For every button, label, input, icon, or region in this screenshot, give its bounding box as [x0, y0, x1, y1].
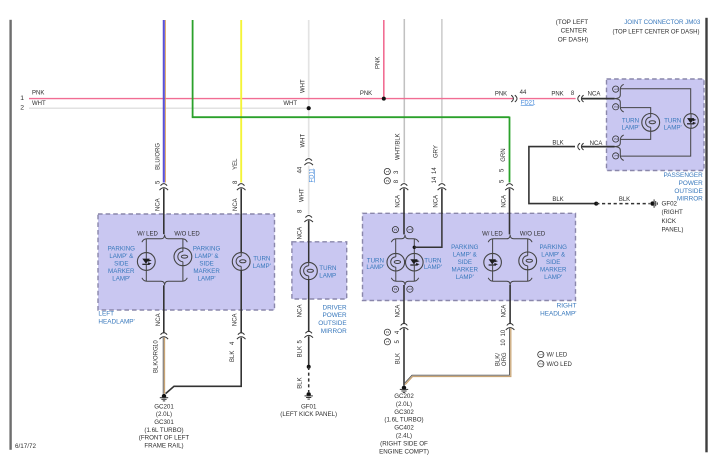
svg-text:LAMP' &: LAMP' &	[109, 253, 134, 260]
svg-text:TURN: TURN	[253, 256, 270, 263]
svg-text:PNK: PNK	[495, 91, 507, 97]
svg-text:CENTER: CENTER	[561, 28, 588, 35]
svg-text:FRAME RAIL): FRAME RAIL)	[144, 442, 183, 449]
svg-text:BLK/: BLK/	[496, 353, 502, 366]
svg-text:(2.0L): (2.0L)	[396, 401, 412, 408]
svg-text:NCA: NCA	[501, 195, 507, 208]
svg-text:POWER: POWER	[679, 180, 704, 187]
svg-text:BLK: BLK	[298, 377, 304, 388]
svg-text:PNK: PNK	[360, 91, 372, 97]
svg-text:HEADLAMP': HEADLAMP'	[98, 318, 134, 325]
svg-text:WHT: WHT	[283, 101, 297, 107]
svg-text:WHT/BLK: WHT/BLK	[396, 133, 402, 160]
svg-text:(1.6L TURBO): (1.6L TURBO)	[384, 417, 423, 424]
svg-text:2: 2	[20, 105, 24, 112]
svg-text:NCA: NCA	[396, 305, 402, 318]
svg-text:WHT: WHT	[300, 188, 306, 202]
svg-text:(1.6L TURBO): (1.6L TURBO)	[144, 427, 183, 434]
svg-text:MARKER: MARKER	[108, 268, 135, 275]
svg-text:LAMP': LAMP'	[424, 264, 442, 271]
svg-text:NCA: NCA	[233, 198, 239, 211]
svg-text:JOINT CONNECTOR JM03: JOINT CONNECTOR JM03	[624, 19, 701, 26]
svg-text:NCA: NCA	[588, 91, 601, 97]
svg-text:BLK: BLK	[552, 141, 563, 147]
svg-text:NCA: NCA	[232, 313, 238, 326]
svg-text:W/O LED: W/O LED	[547, 362, 573, 368]
svg-text:BLU/ORG: BLU/ORG	[155, 143, 161, 170]
svg-text:MARKER: MARKER	[452, 267, 479, 274]
svg-text:LAMP': LAMP'	[198, 275, 216, 282]
svg-text:BLK: BLK	[230, 351, 236, 362]
svg-text:ORG: ORG	[502, 352, 508, 366]
svg-text:1: 1	[20, 95, 24, 102]
svg-text:GC202: GC202	[394, 393, 414, 400]
svg-text:GF01: GF01	[301, 403, 317, 410]
svg-text:PASSENGER: PASSENGER	[663, 172, 703, 179]
svg-text:LAMP': LAMP'	[621, 124, 639, 131]
svg-text:NCA: NCA	[396, 195, 402, 208]
svg-text:NCA: NCA	[298, 305, 304, 318]
svg-text:LAMP' &: LAMP' &	[195, 253, 220, 260]
svg-text:LAMP': LAMP'	[366, 264, 384, 271]
svg-text:W/O LED: W/O LED	[520, 232, 546, 238]
svg-text:44: 44	[297, 166, 303, 173]
svg-text:HEADLAMP': HEADLAMP'	[540, 310, 576, 317]
svg-text:SIDE: SIDE	[458, 259, 472, 266]
svg-text:LAMP': LAMP'	[544, 274, 562, 281]
svg-text:LAMP': LAMP'	[112, 275, 130, 282]
svg-text:RIGHT: RIGHT	[557, 303, 577, 310]
svg-text:(TOP LEFT CENTER OF DASH): (TOP LEFT CENTER OF DASH)	[612, 30, 699, 36]
svg-text:10: 10	[501, 329, 507, 336]
svg-text:14: 14	[432, 167, 438, 174]
svg-text:PANEL): PANEL)	[662, 226, 684, 233]
svg-text:(RIGHT: (RIGHT	[662, 209, 684, 216]
svg-text:GC201: GC201	[154, 403, 174, 410]
svg-text:PARKING: PARKING	[540, 244, 568, 251]
svg-text:14: 14	[432, 176, 438, 183]
svg-text:GC301: GC301	[154, 419, 174, 426]
svg-text:PNK: PNK	[551, 91, 563, 97]
svg-text:NCA: NCA	[590, 141, 603, 147]
svg-text:GRY: GRY	[433, 145, 439, 158]
svg-text:WHT: WHT	[32, 101, 46, 107]
svg-text:(FRONT OF LEFT: (FRONT OF LEFT	[139, 435, 190, 442]
svg-text:PARKING: PARKING	[451, 244, 479, 251]
svg-text:NCA: NCA	[433, 195, 439, 208]
svg-text:GC402: GC402	[394, 425, 414, 432]
svg-text:(RIGHT SIDE OF: (RIGHT SIDE OF	[380, 440, 428, 447]
svg-text:SIDE: SIDE	[199, 260, 213, 267]
svg-text:PARKING: PARKING	[108, 245, 136, 252]
svg-text:YEL: YEL	[233, 158, 239, 170]
svg-text:(2.4L): (2.4L)	[396, 433, 412, 440]
svg-text:W/O LED: W/O LED	[174, 231, 200, 237]
svg-text:LAMP' &: LAMP' &	[541, 252, 566, 259]
svg-text:PARKING: PARKING	[193, 245, 221, 252]
svg-text:MIRROR: MIRROR	[677, 196, 703, 203]
svg-text:SIDE: SIDE	[546, 259, 560, 266]
svg-text:SIDE: SIDE	[114, 260, 128, 267]
svg-text:NCA: NCA	[155, 198, 161, 211]
svg-text:LAMP': LAMP'	[253, 263, 271, 270]
svg-text:BLK: BLK	[552, 197, 563, 203]
svg-text:LAMP' &: LAMP' &	[453, 252, 478, 259]
svg-text:GC302: GC302	[394, 409, 414, 416]
svg-text:(TOP LEFT: (TOP LEFT	[556, 19, 589, 26]
svg-text:LEFT: LEFT	[98, 311, 114, 318]
svg-text:GRN: GRN	[501, 148, 507, 161]
svg-text:PNK: PNK	[375, 57, 381, 69]
svg-text:KICK: KICK	[662, 218, 677, 225]
svg-text:W/ LED: W/ LED	[137, 231, 158, 237]
svg-text:TURN: TURN	[319, 265, 336, 272]
svg-text:10: 10	[154, 340, 160, 347]
svg-text:MARKER: MARKER	[540, 267, 567, 274]
svg-text:ENGINE COMPT): ENGINE COMPT)	[379, 448, 429, 455]
svg-text:OUTSIDE: OUTSIDE	[674, 188, 702, 195]
svg-text:BLK: BLK	[298, 346, 304, 357]
svg-text:6/17/72: 6/17/72	[15, 443, 37, 450]
svg-text:W/ LED: W/ LED	[547, 353, 568, 359]
svg-text:10: 10	[501, 339, 507, 346]
svg-text:OF DASH): OF DASH)	[558, 37, 589, 44]
svg-text:WHT: WHT	[300, 134, 306, 148]
svg-text:NCA: NCA	[297, 227, 303, 240]
svg-text:PNK: PNK	[32, 90, 44, 96]
svg-text:BLK: BLK	[396, 353, 402, 364]
svg-text:LAMP': LAMP'	[456, 274, 474, 281]
svg-text:GF02: GF02	[662, 201, 678, 208]
svg-text:WHT: WHT	[300, 79, 306, 93]
svg-text:OUTSIDE: OUTSIDE	[318, 320, 346, 327]
svg-text:(2.0L): (2.0L)	[156, 411, 172, 418]
svg-text:NCA: NCA	[156, 313, 162, 326]
svg-text:DRIVER: DRIVER	[323, 304, 348, 311]
svg-text:(LEFT KICK PANEL): (LEFT KICK PANEL)	[280, 411, 337, 418]
svg-text:BLK: BLK	[619, 197, 630, 203]
svg-text:W/ LED: W/ LED	[482, 232, 503, 238]
svg-text:BLK/ORG: BLK/ORG	[154, 346, 160, 373]
svg-text:LAMP: LAMP	[319, 272, 336, 279]
svg-text:44: 44	[520, 90, 527, 96]
svg-text:LAMP': LAMP'	[664, 124, 682, 131]
svg-text:POWER: POWER	[323, 312, 348, 319]
svg-text:NCA: NCA	[502, 305, 508, 318]
svg-text:MIRROR: MIRROR	[321, 328, 347, 335]
svg-text:MARKER: MARKER	[193, 268, 220, 275]
